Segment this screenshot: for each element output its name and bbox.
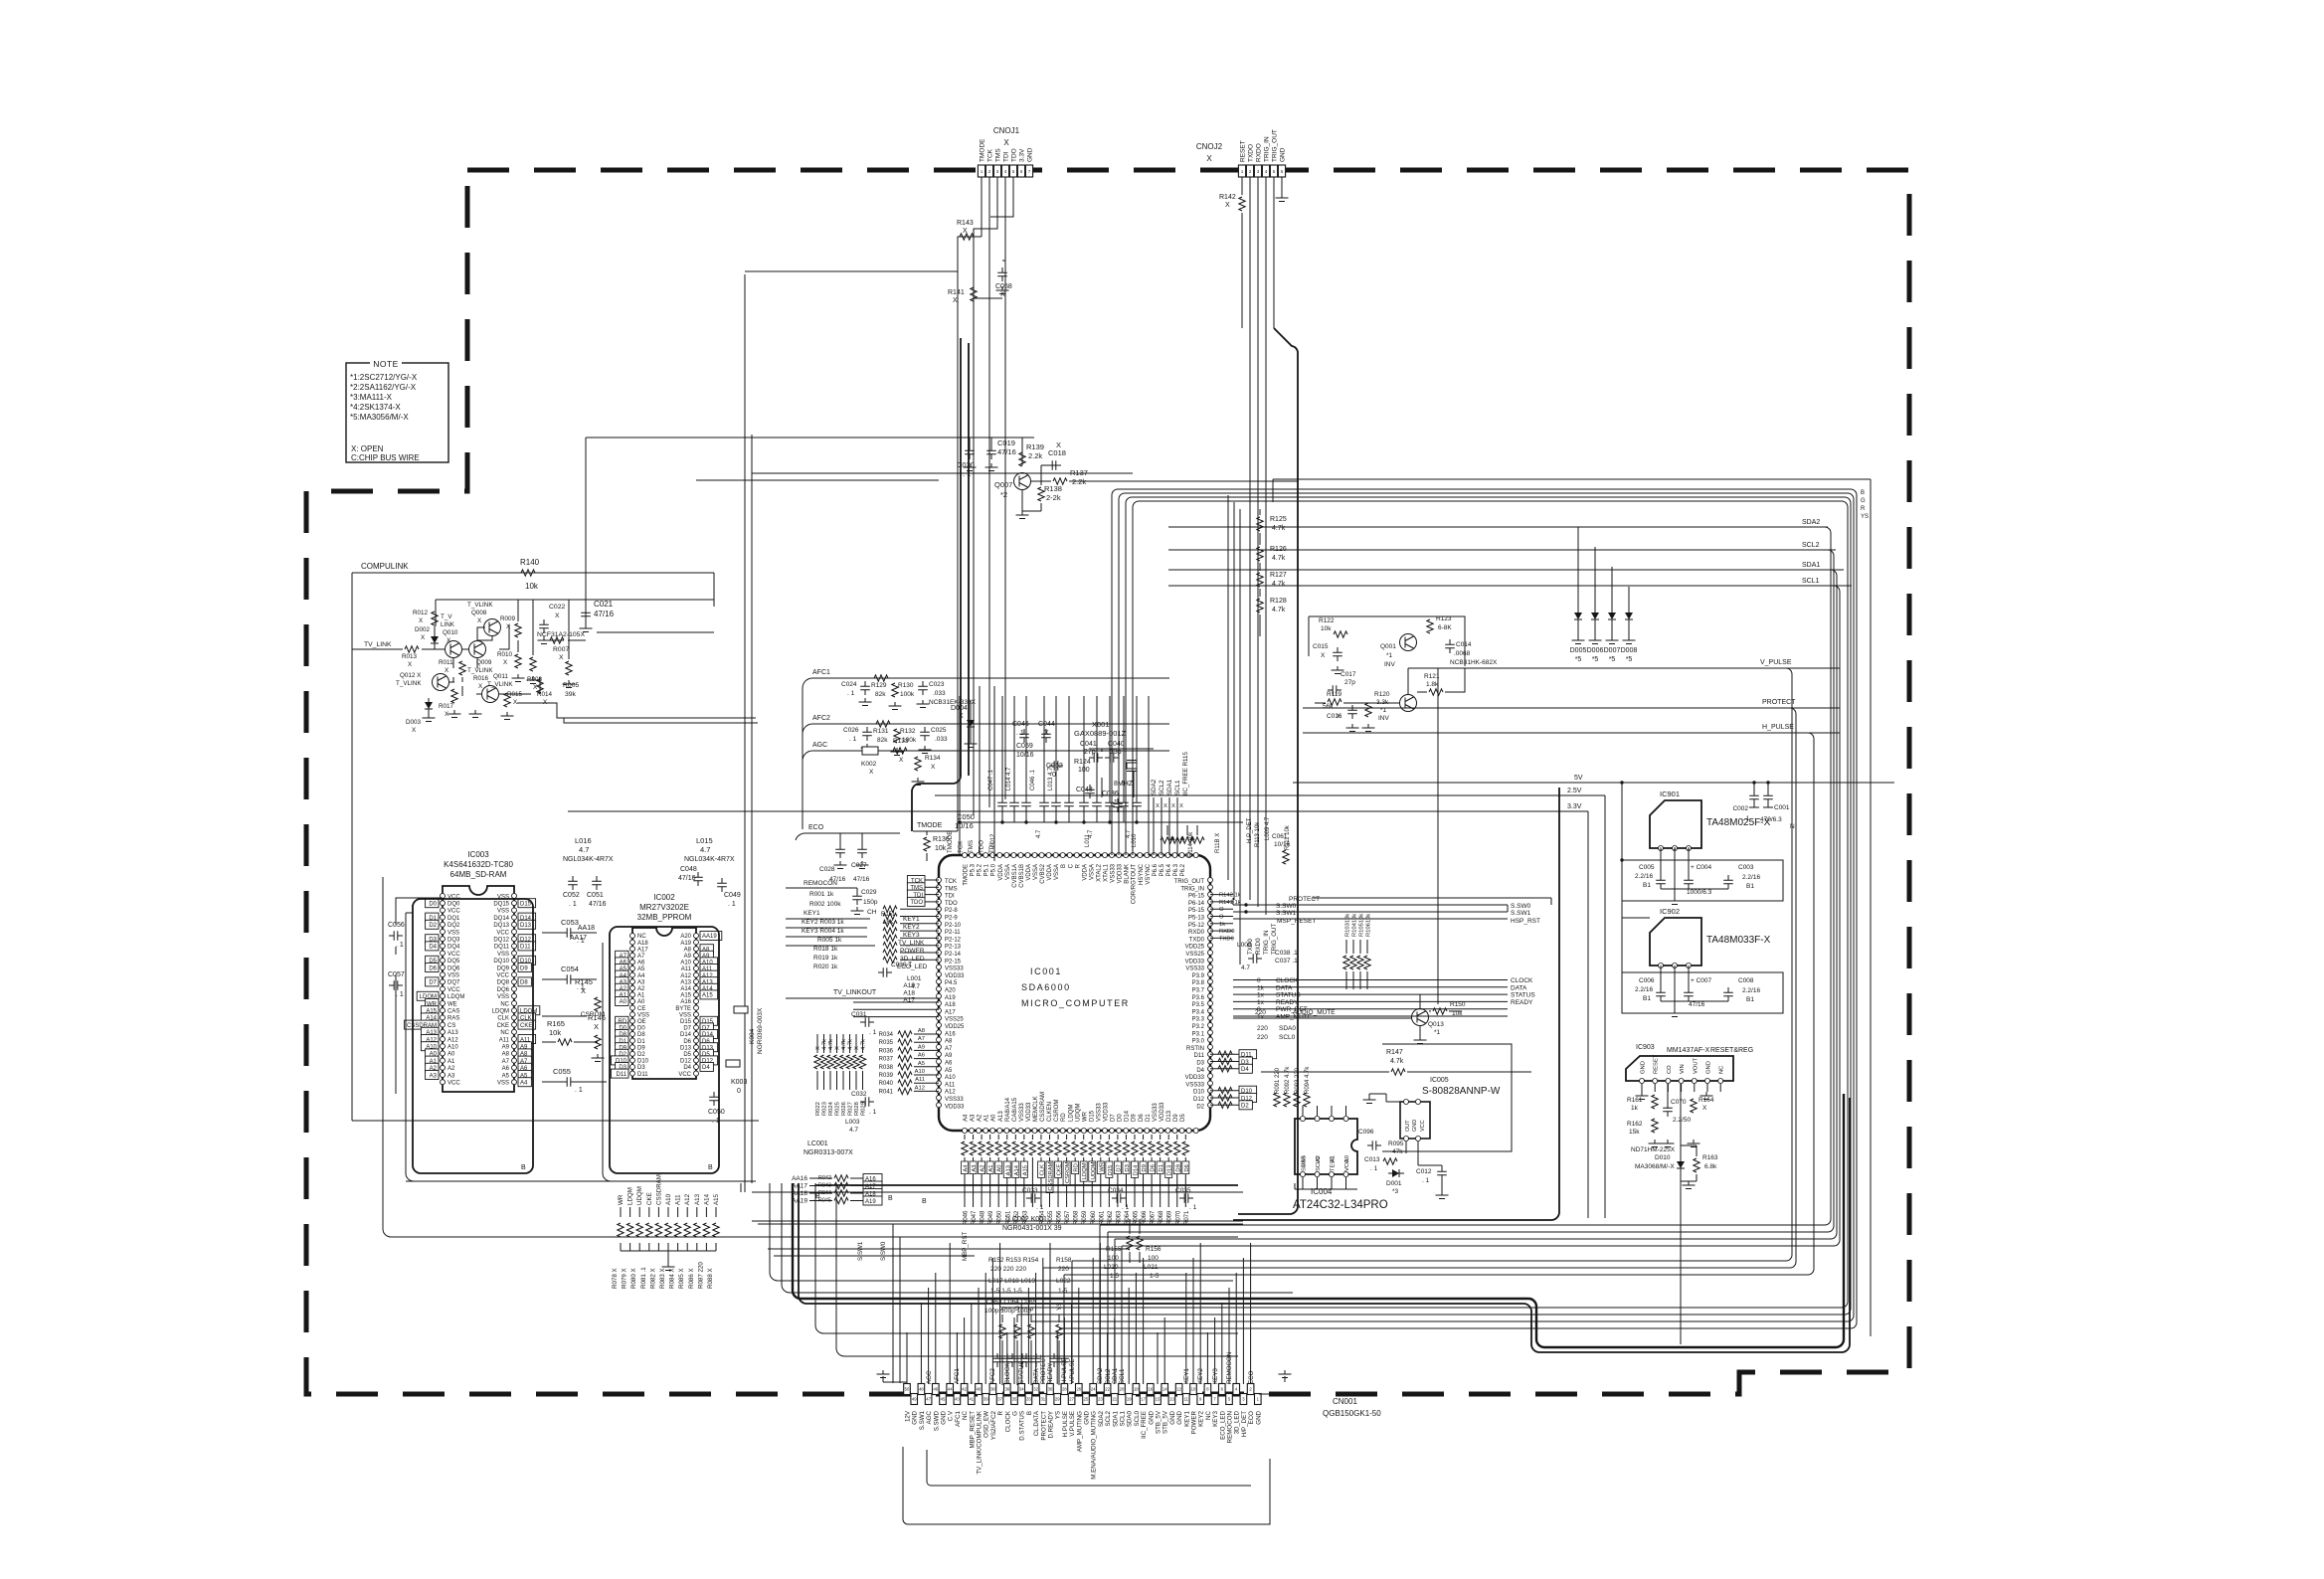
COMPULINK wires xyxy=(435,626,477,682)
svg-text:X: X xyxy=(1163,803,1167,809)
IC001 bottom resistor network R046-R071 xyxy=(964,1135,966,1207)
svg-text:P6.5: P6.5 xyxy=(1160,863,1165,876)
svg-text:D15: D15 xyxy=(680,1019,692,1025)
svg-text:3.3V: 3.3V xyxy=(1567,803,1582,810)
CNOJ2 ground xyxy=(1281,177,1283,194)
svg-text:1.8k: 1.8k xyxy=(1426,681,1439,688)
svg-text:NC: NC xyxy=(500,1001,509,1007)
svg-text:A10: A10 xyxy=(665,1193,672,1205)
svg-text:CVBS2: CVBS2 xyxy=(1040,863,1046,883)
svg-text:4.7: 4.7 xyxy=(1126,829,1132,838)
svg-text:B: B xyxy=(815,1193,820,1200)
CNOJ2 wires down xyxy=(1242,177,1274,915)
svg-text:D9: D9 xyxy=(1175,1164,1181,1171)
svg-text:41: 41 xyxy=(969,1397,974,1402)
svg-text:R124: R124 xyxy=(1074,759,1091,766)
svg-text:VSS: VSS xyxy=(497,952,509,958)
COMPULINK grounds xyxy=(448,710,461,718)
svg-text:A2: A2 xyxy=(978,1114,983,1122)
svg-text:CO: CO xyxy=(1667,1065,1673,1074)
svg-text:R10310k: R10310k xyxy=(1345,914,1351,937)
svg-text:36: 36 xyxy=(1004,1387,1009,1392)
svg-text:*2:2SA1162/YG/-X: *2:2SA1162/YG/-X xyxy=(350,383,417,392)
svg-text:16: 16 xyxy=(1148,1387,1153,1392)
svg-text:VDD33: VDD33 xyxy=(945,1104,965,1110)
svg-text:10k: 10k xyxy=(549,1028,561,1037)
svg-text:A0: A0 xyxy=(997,1165,1003,1172)
svg-text:OSD_EW: OSD_EW xyxy=(983,1411,990,1438)
svg-text:AGC: AGC xyxy=(812,742,827,749)
svg-text:C040: C040 xyxy=(1108,741,1125,748)
svg-text:A11: A11 xyxy=(945,1082,956,1088)
svg-text:HSP_RST: HSP_RST xyxy=(1511,918,1540,925)
svg-text:D6: D6 xyxy=(1184,1164,1190,1171)
svg-text:AFC1: AFC1 xyxy=(812,669,830,676)
svg-text:D010: D010 xyxy=(1655,1154,1671,1161)
svg-text:47k: 47k xyxy=(1392,1148,1403,1155)
resistor R150 xyxy=(1433,1008,1447,1014)
svg-text:R119: R119 xyxy=(1327,691,1341,698)
svg-text:GND: GND xyxy=(1176,1410,1183,1424)
svg-text:SDA2: SDA2 xyxy=(1098,1410,1105,1427)
svg-text:R088 X: R088 X xyxy=(707,1268,714,1289)
transistor Q011 xyxy=(482,686,499,703)
svg-text:CSSDRAM: CSSDRAM xyxy=(655,1174,662,1205)
IC001 bottom pin row xyxy=(963,1129,968,1134)
svg-text:L013 4.7: L013 4.7 xyxy=(1048,767,1054,790)
svg-text:R058: R058 xyxy=(1074,1210,1080,1225)
svg-text:X001: X001 xyxy=(1092,720,1110,729)
resistor R128 xyxy=(1257,599,1263,613)
svg-text:C021: C021 xyxy=(594,600,614,609)
resistor R125 xyxy=(1257,517,1263,531)
svg-text:13: 13 xyxy=(1169,1397,1174,1402)
svg-text:ECO_LED: ECO_LED xyxy=(1219,1410,1226,1439)
svg-text:C002: C002 xyxy=(1732,805,1748,812)
svg-text:VDD25: VDD25 xyxy=(945,1024,965,1030)
svg-text:CKE: CKE xyxy=(646,1192,653,1205)
svg-text:A2: A2 xyxy=(1316,1155,1322,1162)
svg-text:C030 1: C030 1 xyxy=(891,962,912,968)
svg-text:KEY1: KEY1 xyxy=(903,916,920,923)
svg-text:H_PULSE: H_PULSE xyxy=(1762,724,1794,731)
resistor R011 xyxy=(459,661,465,675)
svg-text:P2-10: P2-10 xyxy=(945,923,962,929)
svg-text:STB_5V: STB_5V xyxy=(1162,1410,1169,1434)
svg-text:L001: L001 xyxy=(907,975,922,982)
svg-text:*5:MA3056/M/-X: *5:MA3056/M/-X xyxy=(350,413,409,422)
svg-text:P6.3: P6.3 xyxy=(1173,863,1179,876)
svg-text:30: 30 xyxy=(1048,1387,1053,1392)
svg-text:. 1: . 1 xyxy=(396,942,404,949)
svg-text:R084 X: R084 X xyxy=(669,1268,676,1289)
svg-text:R142 1k: R142 1k xyxy=(1219,893,1241,899)
svg-text:18K: 18K xyxy=(883,920,894,926)
svg-text:VDDA: VDDA xyxy=(998,864,1004,881)
svg-text:DQ7: DQ7 xyxy=(447,980,460,986)
svg-text:NGR0431-001X 39: NGR0431-001X 39 xyxy=(1002,1225,1062,1232)
svg-text:R007: R007 xyxy=(553,646,569,653)
svg-text:1x: 1x xyxy=(1257,999,1265,1006)
svg-text:D006: D006 xyxy=(1587,647,1604,654)
svg-text:A13: A13 xyxy=(998,1111,1004,1122)
svg-text:LDQM: LDQM xyxy=(447,994,464,1000)
svg-text:A1: A1 xyxy=(637,993,645,999)
svg-text:D1: D1 xyxy=(637,1039,645,1045)
svg-text:R060: R060 xyxy=(1091,1210,1097,1225)
svg-text:MBP_RESET: MBP_RESET xyxy=(969,1411,976,1449)
svg-text:B: B xyxy=(922,1198,927,1205)
svg-text:TDO: TDO xyxy=(1011,148,1018,162)
svg-text:C052: C052 xyxy=(563,892,580,899)
svg-text:R: R xyxy=(1861,506,1866,512)
svg-text:NGR0369-003X: NGR0369-003X xyxy=(757,1007,764,1054)
svg-text:AA18: AA18 xyxy=(792,1190,807,1197)
svg-text:*5: *5 xyxy=(1626,656,1633,663)
svg-text:L012: L012 xyxy=(990,833,996,847)
svg-text:1-5: 1-5 xyxy=(1150,1273,1160,1280)
svg-text:IC001: IC001 xyxy=(1030,966,1062,976)
svg-text:RESET: RESET xyxy=(1240,140,1247,162)
svg-text:TDI: TDI xyxy=(945,894,955,900)
svg-text:15: 15 xyxy=(1156,1397,1161,1402)
wires from EPROM region down xyxy=(741,435,752,1192)
svg-text:82k: 82k xyxy=(875,691,886,698)
svg-text:POWER: POWER xyxy=(900,948,925,955)
svg-text:A9: A9 xyxy=(945,1053,953,1059)
svg-text:TA48M033F-X: TA48M033F-X xyxy=(1706,935,1771,946)
svg-text:4.7: 4.7 xyxy=(849,1127,858,1134)
svg-text:X: X xyxy=(815,1046,821,1050)
svg-text:1x: 1x xyxy=(1257,992,1265,999)
svg-text:R086 X: R086 X xyxy=(688,1268,695,1289)
left lower verticals xyxy=(893,1224,900,1383)
IC002 body xyxy=(632,928,696,1079)
svg-text:+ C007: + C007 xyxy=(1691,977,1712,984)
svg-text:R091 220: R091 220 xyxy=(1275,1067,1281,1094)
svg-text:DATA: DATA xyxy=(1511,984,1527,991)
svg-text:D2: D2 xyxy=(429,923,437,929)
svg-text:CH: CH xyxy=(867,909,877,916)
svg-text:R012: R012 xyxy=(413,610,429,616)
svg-text:R009: R009 xyxy=(500,615,516,622)
svg-text:D9: D9 xyxy=(1132,1114,1138,1122)
svg-text:R024: R024 xyxy=(828,1101,834,1116)
svg-text:T_VLINK: T_VLINK xyxy=(487,681,513,688)
svg-text:29: 29 xyxy=(1055,1397,1060,1402)
svg-text:DQ3: DQ3 xyxy=(447,938,460,944)
capacitor C055 xyxy=(562,1077,576,1087)
IC001 bottom bus line xyxy=(815,1184,1238,1186)
svg-text:*3:MA111-X: *3:MA111-X xyxy=(350,393,393,402)
svg-text:50: 50 xyxy=(905,1387,910,1392)
svg-text:D2: D2 xyxy=(1196,1104,1204,1110)
svg-text:X: X xyxy=(1206,154,1212,163)
svg-text:AT24C32-L34PRO: AT24C32-L34PRO xyxy=(1293,1199,1388,1211)
svg-text:D4: D4 xyxy=(1196,1068,1204,1074)
svg-text:R165: R165 xyxy=(547,1019,565,1028)
IC002 outer boxed labels left xyxy=(616,951,628,960)
svg-text:R079 X: R079 X xyxy=(622,1268,628,1289)
svg-text:D5: D5 xyxy=(683,1052,691,1058)
IC003 right pins xyxy=(512,894,517,899)
R155 R156 chains xyxy=(1127,1236,1133,1250)
svg-text:R080 X: R080 X xyxy=(630,1268,637,1289)
IC903 peripherals xyxy=(1636,1092,1649,1100)
svg-text:B: B xyxy=(1061,864,1067,868)
svg-text:R085 X: R085 X xyxy=(678,1268,685,1289)
net SDA1 line xyxy=(1168,569,1844,571)
svg-text:A20: A20 xyxy=(680,934,691,940)
svg-text:SCL2: SCL2 xyxy=(1105,1410,1112,1426)
svg-text:R095: R095 xyxy=(1388,1140,1404,1147)
svg-text:ECO: ECO xyxy=(1248,1411,1255,1425)
svg-text:MR27V3202E: MR27V3202E xyxy=(639,903,689,912)
svg-text:R022: R022 xyxy=(815,1102,821,1116)
capacitor C051 xyxy=(592,876,602,890)
svg-text:C022: C022 xyxy=(549,604,565,611)
svg-text:TMODE: TMODE xyxy=(917,822,943,829)
svg-text:C035: C035 xyxy=(1175,1187,1191,1194)
svg-text:C053: C053 xyxy=(561,918,579,927)
svg-text:VSS25: VSS25 xyxy=(945,1017,964,1023)
svg-text:4.7k: 4.7k xyxy=(1272,581,1286,588)
svg-text:C032: C032 xyxy=(851,1091,867,1098)
svg-text:0: 0 xyxy=(1257,977,1261,984)
svg-text:26: 26 xyxy=(1076,1387,1081,1392)
svg-text:REMOCON: REMOCON xyxy=(1227,1411,1234,1443)
svg-text:GND: GND xyxy=(1706,1061,1712,1074)
svg-text:A18: A18 xyxy=(903,989,915,996)
svg-text:A14: A14 xyxy=(1014,1164,1020,1175)
svg-text:Q008: Q008 xyxy=(471,610,487,616)
svg-text:4.7k: 4.7k xyxy=(1390,1058,1404,1065)
svg-text:. 1: . 1 xyxy=(575,1087,583,1094)
svg-text:STATUS: STATUS xyxy=(1276,992,1301,999)
svg-text:P5-13: P5-13 xyxy=(1188,916,1205,922)
svg-text:CLOCK: CLOCK xyxy=(1004,1410,1011,1432)
svg-text:. 1: . 1 xyxy=(869,1109,877,1116)
transistor Q013 xyxy=(1412,1009,1429,1026)
IC005 body xyxy=(1400,1102,1430,1139)
svg-text:C003: C003 xyxy=(1738,864,1754,871)
wire horiz y437 xyxy=(586,438,958,600)
svg-text:C028: C028 xyxy=(819,866,835,873)
svg-text:D12: D12 xyxy=(680,1059,692,1065)
svg-text:TXD0: TXD0 xyxy=(1219,936,1234,942)
svg-text:R152 R153 R154: R152 R153 R154 xyxy=(988,1257,1039,1264)
svg-text:P3.8: P3.8 xyxy=(1192,980,1205,986)
svg-text:B: B xyxy=(1861,490,1865,496)
capacitor C030 xyxy=(878,967,892,977)
svg-text:COR/RGTOUT: COR/RGTOUT xyxy=(1132,864,1138,905)
svg-text:C033: C033 xyxy=(1022,1187,1038,1194)
svg-text:A12: A12 xyxy=(915,1085,925,1091)
svg-text:4.7k: 4.7k xyxy=(848,1039,854,1050)
svg-text:YS: YS xyxy=(1861,514,1869,520)
svg-text:R10410k: R10410k xyxy=(1352,914,1358,937)
capacitor C048 xyxy=(693,872,703,886)
svg-text:DQ2: DQ2 xyxy=(447,923,460,929)
svg-text:VSS: VSS xyxy=(1302,1155,1308,1167)
svg-text:2.2k: 2.2k xyxy=(1028,451,1042,460)
svg-text:X: X xyxy=(1321,652,1326,659)
svg-text:46: 46 xyxy=(933,1387,938,1392)
svg-text:DQ14: DQ14 xyxy=(493,916,509,922)
svg-text:C047 .1: C047 .1 xyxy=(988,769,994,790)
svg-text:D.STATUS: D.STATUS xyxy=(1019,1411,1026,1441)
svg-text:WE: WE xyxy=(447,1001,457,1007)
svg-text:VSS33: VSS33 xyxy=(1111,863,1117,882)
K003 chip wire xyxy=(726,1060,740,1067)
svg-text:D7: D7 xyxy=(1116,1164,1122,1171)
capacitor C020 xyxy=(965,445,975,459)
svg-text:AMP_MUTING: AMP_MUTING xyxy=(1076,1411,1083,1452)
svg-text:MM1437AF-X: MM1437AF-X xyxy=(1667,1047,1710,1054)
svg-text:47/16: 47/16 xyxy=(997,447,1016,456)
svg-text:A9: A9 xyxy=(684,954,692,960)
svg-text:X: X xyxy=(1000,291,1005,298)
horizontal band wires below IC001 xyxy=(752,1221,1243,1256)
svg-text:P3.6: P3.6 xyxy=(1192,995,1205,1001)
CNOJ1 wires xyxy=(974,177,1013,328)
svg-text:TV_LINKOUT: TV_LINKOUT xyxy=(833,989,877,996)
svg-text:VSS33: VSS33 xyxy=(945,966,964,972)
svg-text:39: 39 xyxy=(983,1397,988,1402)
svg-text:RESET&REG: RESET&REG xyxy=(1710,1047,1753,1054)
svg-text:LC001: LC001 xyxy=(807,1140,828,1147)
svg-text:D13: D13 xyxy=(1167,1165,1173,1176)
svg-text:A19: A19 xyxy=(865,1199,876,1205)
svg-text:VSS: VSS xyxy=(497,1081,509,1087)
wire trunk x745 xyxy=(744,274,746,1192)
svg-text:4.7k: 4.7k xyxy=(1272,555,1286,562)
svg-text:4.7k: 4.7k xyxy=(822,1039,828,1050)
resistor R126 xyxy=(1257,547,1263,561)
IC002 right pins xyxy=(694,934,699,939)
svg-text:CLOCK: CLOCK xyxy=(1276,977,1299,984)
svg-text:VOUT: VOUT xyxy=(1693,1057,1698,1074)
svg-text:A7: A7 xyxy=(945,1046,953,1052)
svg-text:RSTIN: RSTIN xyxy=(1186,1046,1204,1052)
IC003 outer boxed labels right xyxy=(518,899,536,908)
svg-text:A6: A6 xyxy=(945,1061,953,1067)
caps row above IC001 xyxy=(997,797,1007,811)
IC901 capacitor box xyxy=(1622,860,1783,901)
svg-text:R140: R140 xyxy=(520,558,540,567)
svg-text:P2-11: P2-11 xyxy=(945,930,961,936)
svg-text:A5: A5 xyxy=(918,1061,925,1067)
svg-text:VDD33: VDD33 xyxy=(1160,1102,1165,1122)
svg-text:C023: C023 xyxy=(929,681,945,688)
svg-text:P6.2: P6.2 xyxy=(1180,863,1186,876)
svg-text:KEY3: KEY3 xyxy=(1212,1368,1219,1384)
svg-text:C058: C058 xyxy=(995,283,1012,290)
svg-text:C070: C070 xyxy=(1671,1099,1687,1106)
svg-text:C018: C018 xyxy=(1048,448,1066,457)
COMPULINK output wires xyxy=(517,600,758,723)
svg-text:B1: B1 xyxy=(1643,995,1651,1002)
svg-text:OE: OE xyxy=(637,1019,646,1025)
svg-text:A11: A11 xyxy=(675,1194,682,1205)
svg-text:P2-9: P2-9 xyxy=(945,916,958,922)
svg-text:.0068: .0068 xyxy=(1454,650,1471,657)
svg-text:R018 1k: R018 1k xyxy=(813,946,838,953)
svg-text:NGL034K-4R7X: NGL034K-4R7X xyxy=(684,856,735,863)
svg-text:DQ15: DQ15 xyxy=(493,902,509,908)
capacitor C018 xyxy=(1047,460,1061,470)
svg-text:TV_LINK/COMPULINK: TV_LINK/COMPULINK xyxy=(977,1410,983,1474)
svg-text:STATUS: STATUS xyxy=(1511,992,1535,999)
svg-text:P6.6: P6.6 xyxy=(1153,863,1159,876)
svg-text:X: X xyxy=(854,1046,860,1050)
svg-text:P2-12: P2-12 xyxy=(945,937,962,943)
svg-text:VSSA: VSSA xyxy=(1089,864,1095,880)
svg-text:A7: A7 xyxy=(918,1036,925,1042)
svg-text:R041: R041 xyxy=(879,1089,894,1095)
svg-text:D12: D12 xyxy=(1193,1097,1205,1103)
svg-text:R071: R071 xyxy=(1184,1210,1190,1225)
svg-text:R036: R036 xyxy=(879,1048,894,1054)
svg-text:LINK: LINK xyxy=(441,621,455,628)
svg-text:A4: A4 xyxy=(964,1114,970,1122)
svg-text:AFC2: AFC2 xyxy=(812,715,830,722)
svg-text:D1: D1 xyxy=(1146,1114,1152,1122)
svg-text:VDD33: VDD33 xyxy=(945,973,965,979)
svg-text:SDA1: SDA1 xyxy=(1166,779,1173,795)
svg-text:18: 18 xyxy=(1134,1387,1139,1392)
svg-text:T_V: T_V xyxy=(441,614,452,620)
IC001 right data pin boxed labels xyxy=(1239,1050,1257,1059)
svg-text:17: 17 xyxy=(1141,1397,1146,1402)
svg-text:A19: A19 xyxy=(903,982,915,989)
svg-text:1-5 1-5 1-5: 1-5 1-5 1-5 xyxy=(990,1288,1022,1295)
svg-text:R10510k: R10510k xyxy=(1359,914,1365,937)
svg-text:XTAL2: XTAL2 xyxy=(1096,863,1102,882)
transistor Q012 xyxy=(433,674,449,691)
svg-text:C048: C048 xyxy=(680,866,697,873)
svg-text:B: B xyxy=(1028,1307,1035,1311)
svg-text:5V: 5V xyxy=(1574,775,1583,782)
svg-text:A8: A8 xyxy=(918,1028,925,1034)
svg-text:VSS33: VSS33 xyxy=(1019,1103,1025,1122)
svg-text:B: B xyxy=(521,1164,526,1171)
transistor Q007 xyxy=(1014,473,1031,490)
svg-text:L008: L008 xyxy=(1237,942,1252,949)
svg-text:L016: L016 xyxy=(575,836,592,845)
svg-text:TV_LINK: TV_LINK xyxy=(364,641,392,648)
svg-text:AA19: AA19 xyxy=(792,1198,807,1205)
svg-text:TRIG_IN: TRIG_IN xyxy=(1264,136,1271,162)
svg-text:P3.1: P3.1 xyxy=(1192,1031,1205,1037)
left border drop wires xyxy=(383,877,1238,1237)
svg-text:R042: R042 xyxy=(818,1175,831,1181)
svg-text:TXD0: TXD0 xyxy=(1189,937,1205,943)
svg-text:VCC: VCC xyxy=(447,987,460,993)
svg-text:R143: R143 xyxy=(957,220,974,227)
svg-text:MICRO_COMPUTER: MICRO_COMPUTER xyxy=(1021,998,1130,1008)
svg-text:D2: D2 xyxy=(1241,1104,1249,1110)
svg-text:48: 48 xyxy=(919,1387,924,1392)
svg-text:AGC: AGC xyxy=(926,1370,933,1384)
svg-text:A11: A11 xyxy=(915,1077,925,1083)
svg-text:A11: A11 xyxy=(681,966,692,972)
svg-text:D15: D15 xyxy=(1089,1110,1095,1122)
svg-text:CVBS1B: CVBS1B xyxy=(1019,864,1025,888)
svg-text:GND: GND xyxy=(1027,147,1034,162)
diode D001 xyxy=(1388,1169,1404,1177)
svg-text:INV: INV xyxy=(1384,661,1396,668)
